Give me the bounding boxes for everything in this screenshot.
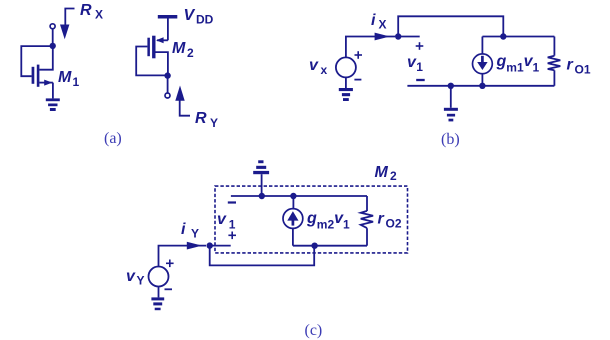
resistor rO1 bbox=[548, 37, 561, 86]
minus sign v1 (b) bbox=[416, 79, 425, 81]
open terminal node (a-left) bbox=[50, 24, 55, 29]
svg-text:X: X bbox=[379, 18, 387, 32]
svg-text:1: 1 bbox=[73, 75, 80, 89]
plus sign vx bbox=[355, 51, 363, 59]
wire gate feedback loop M2 bbox=[136, 47, 168, 76]
ground stem into box (c) bbox=[261, 174, 263, 196]
label v1 (c) bbox=[217, 211, 236, 232]
plus sign v1 (b) bbox=[416, 42, 424, 50]
svg-text:R: R bbox=[195, 110, 207, 127]
wire gate feedback loop M1 bbox=[21, 46, 52, 76]
label vY bbox=[126, 268, 145, 288]
label iY bbox=[181, 221, 199, 241]
wire loop below box (c) bbox=[210, 246, 315, 266]
svg-text:v: v bbox=[217, 211, 227, 228]
dashed box M2 model bbox=[215, 186, 408, 253]
plus sign vY bbox=[166, 260, 174, 268]
label M1 bbox=[58, 69, 80, 89]
svg-text:(a): (a) bbox=[104, 130, 122, 147]
svg-text:Y: Y bbox=[191, 227, 199, 241]
node dot source top junction (c) bbox=[290, 193, 296, 199]
label RX bbox=[80, 2, 103, 22]
node dot input (c) bbox=[207, 242, 213, 248]
v1 + terminal stub (c) bbox=[210, 245, 231, 247]
wire terminal to drain node bbox=[52, 29, 54, 46]
svg-text:M: M bbox=[172, 40, 186, 57]
node dot gate/drain junction M2 bbox=[164, 72, 170, 78]
svg-text:Y: Y bbox=[210, 116, 218, 130]
resistor rO2 bbox=[361, 196, 373, 246]
ground under M1 bbox=[46, 98, 60, 111]
node dot top junction (b) bbox=[500, 33, 506, 39]
svg-text:i: i bbox=[371, 12, 376, 29]
inverted ground symbol (c) bbox=[253, 160, 269, 174]
svg-text:X: X bbox=[95, 8, 103, 22]
label M2 bbox=[172, 40, 194, 60]
voltage source vx bbox=[336, 57, 356, 77]
ground stem (b) bbox=[450, 86, 452, 108]
svg-text:(b): (b) bbox=[441, 131, 460, 148]
ground under vx bbox=[339, 88, 353, 101]
wire vx to node, with current arrow bbox=[346, 37, 395, 58]
minus sign v1 (c) bbox=[228, 201, 236, 203]
top wire (b) bbox=[398, 16, 503, 36]
top rail (c) bbox=[231, 195, 367, 197]
svg-text:V: V bbox=[184, 7, 196, 24]
svg-text:2: 2 bbox=[390, 169, 397, 183]
VDD supply bar bbox=[158, 15, 178, 19]
svg-text:2: 2 bbox=[187, 46, 194, 60]
current arrow iX bbox=[375, 33, 390, 41]
transistor M1 (NMOS diode-connected) bbox=[32, 46, 53, 99]
svg-text:(c): (c) bbox=[305, 322, 323, 339]
svg-text:R: R bbox=[80, 2, 92, 19]
label v1 (b) bbox=[407, 54, 423, 74]
svg-text:i: i bbox=[181, 221, 186, 238]
wire vY to ground bbox=[158, 287, 160, 298]
wire junction to open terminal bbox=[167, 78, 169, 93]
node dot input (b) bbox=[395, 33, 401, 39]
label rO2 bbox=[378, 211, 402, 231]
current source gm2v1 bbox=[283, 196, 303, 246]
svg-text:x: x bbox=[321, 63, 328, 77]
svg-text:DD: DD bbox=[196, 13, 214, 27]
svg-text:v: v bbox=[126, 268, 136, 285]
node dot source bottom junction (b) bbox=[479, 83, 485, 89]
open terminal node (a-right) bbox=[165, 93, 170, 98]
v1 + terminal stub (b) bbox=[398, 36, 420, 38]
wire vy to node with current arrow bbox=[159, 246, 207, 267]
transistor M2 (PMOS diode-connected) bbox=[147, 36, 168, 76]
svg-text:1: 1 bbox=[229, 218, 236, 232]
node dot bottom junction (c) bbox=[311, 243, 317, 249]
node dot ground junction (b) bbox=[448, 83, 454, 89]
bottom rail (c) bbox=[293, 245, 367, 247]
ground under vY bbox=[151, 297, 164, 310]
svg-text:r: r bbox=[378, 211, 385, 228]
svg-text:Y: Y bbox=[137, 274, 145, 288]
label VDD bbox=[184, 7, 214, 27]
voltage source vY bbox=[149, 267, 169, 287]
label M2 (c) bbox=[375, 164, 398, 183]
label RY bbox=[195, 110, 218, 130]
top segment to ro1 (b) bbox=[482, 36, 554, 38]
svg-text:M: M bbox=[375, 164, 389, 181]
minus sign vx bbox=[354, 79, 361, 81]
label vx bbox=[309, 57, 328, 77]
label rO1 bbox=[567, 57, 591, 77]
bottom rail (b) bbox=[407, 85, 554, 87]
svg-text:O2: O2 bbox=[386, 217, 402, 231]
svg-text:r: r bbox=[567, 57, 574, 74]
plus sign v1 (c) bbox=[228, 232, 236, 240]
svg-text:M: M bbox=[58, 69, 72, 86]
svg-text:O1: O1 bbox=[575, 63, 591, 77]
wire VDD to source M2 bbox=[167, 19, 169, 41]
svg-text:1: 1 bbox=[416, 60, 423, 74]
ground under rail (b) bbox=[444, 108, 458, 122]
svg-text:v: v bbox=[309, 57, 319, 74]
label iX bbox=[371, 12, 387, 32]
current source gm1v1 bbox=[473, 37, 493, 86]
RY arrow pointing up at terminal bbox=[175, 86, 190, 116]
current arrow iY bbox=[187, 242, 202, 250]
wire vx to ground bbox=[345, 77, 347, 88]
node dot ground junction (c) bbox=[259, 193, 265, 199]
RX arrow pointing down into terminal bbox=[60, 9, 75, 40]
node dot drain/gate junction M1 bbox=[50, 43, 56, 49]
minus sign vY bbox=[165, 288, 173, 290]
